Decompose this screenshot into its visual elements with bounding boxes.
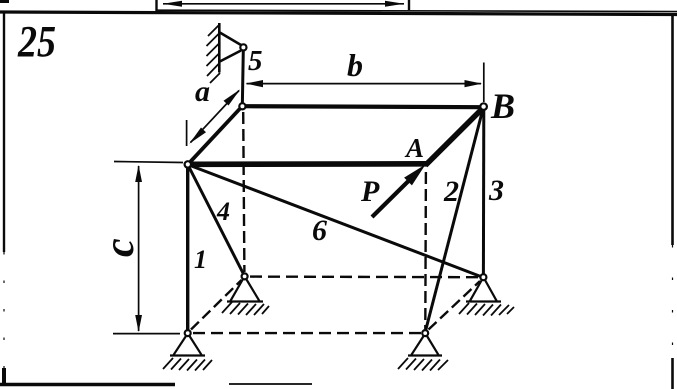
dashed bottom depth edge F to M: [191, 280, 242, 330]
support at R hatching: [459, 303, 514, 316]
rod 5: [242, 50, 243, 107]
svg-text:1: 1: [194, 245, 207, 274]
dimension c bottom arrowhead: [135, 315, 142, 332]
dashed bottom depth edge G to R: [429, 281, 481, 330]
svg-text:b: b: [347, 47, 363, 83]
support at G hatching: [398, 358, 448, 371]
node L circle: [185, 161, 191, 167]
right page border faint lower dots: [672, 245, 674, 355]
rod 3: [482, 110, 485, 275]
node B circle: [480, 103, 487, 110]
node N5 circle: [239, 103, 245, 109]
left page border: [3, 12, 5, 252]
bar a (L to N5): [189, 108, 241, 164]
support at F triangle: [170, 336, 205, 356]
svg-text:25: 25: [17, 17, 56, 66]
dimension c line: [138, 166, 140, 331]
upper cell dimension line: [163, 3, 404, 5]
bottom rule thick segment: [0, 383, 175, 386]
dashed bottom front edge F to G: [193, 332, 421, 334]
left page border faint lower dots: [3, 252, 5, 380]
dimension c bottom extension line: [113, 333, 180, 335]
svg-text:4: 4: [216, 197, 230, 226]
dimension a extension tick: [186, 120, 188, 146]
wall pin bracket: [220, 33, 241, 62]
wall hatching: [207, 24, 221, 83]
svg-text:2: 2: [443, 175, 459, 208]
svg-text:B: B: [490, 86, 515, 126]
dimension c top arrowhead: [135, 165, 142, 182]
force P arrow shaft: [372, 178, 412, 218]
svg-text:c: c: [97, 238, 143, 257]
upper cell left arrowhead: [163, 1, 182, 7]
svg-text:6: 6: [312, 214, 327, 247]
dimension a lower arrowhead: [189, 128, 206, 144]
support at M triangle: [227, 279, 263, 302]
upper cell left edge: [155, 0, 157, 11]
node M circle: [242, 273, 248, 279]
svg-text:P: P: [360, 175, 380, 208]
dimension a upper arrowhead: [224, 89, 241, 105]
dimension c top extension line: [114, 162, 183, 163]
rod 4: [189, 167, 244, 275]
dimension a line: [191, 91, 240, 143]
thick bar top back (N5 to B): [244, 106, 482, 107]
svg-text:5: 5: [248, 45, 263, 77]
rod 1: [186, 167, 189, 330]
dashed vertical edge N5 down to M: [243, 112, 244, 272]
rod 2: [426, 110, 483, 331]
wall pin circle: [240, 44, 246, 50]
support at F hatching: [163, 358, 212, 371]
dimension b right arrowhead: [465, 80, 483, 87]
node F circle: [185, 330, 191, 336]
rod 6: [191, 166, 482, 277]
support at M hatching: [222, 302, 269, 315]
upper cell right edge: [408, 0, 410, 10]
support at R triangle: [466, 280, 501, 302]
thick bar A to B: [425, 108, 482, 165]
top-left corner smudge: [0, 0, 9, 3]
bottom rule thin segment: [229, 383, 312, 385]
thick bar front (L to A): [190, 161, 428, 167]
upper cell right arrowhead: [385, 1, 404, 7]
svg-text:a: a: [195, 75, 210, 108]
dimension b line: [247, 83, 482, 85]
support at G triangle: [408, 336, 442, 356]
node G circle: [422, 330, 428, 336]
right bottom corner tick: [671, 358, 674, 389]
upper cell bottom edge: [156, 10, 677, 11]
force P arrowhead: [404, 165, 425, 186]
right page border: [671, 13, 674, 245]
node R circle: [480, 274, 486, 280]
wall line: [218, 23, 221, 73]
top table border: [0, 12, 677, 15]
svg-text:3: 3: [488, 174, 504, 207]
dimension b left arrowhead: [246, 80, 264, 87]
dimension b right extension line: [483, 63, 485, 103]
dashed bottom back edge M to R: [250, 275, 479, 278]
svg-text:A: A: [404, 133, 424, 163]
dashed vertical edge A down to G: [424, 172, 427, 329]
left bottom corner tick: [2, 368, 6, 386]
